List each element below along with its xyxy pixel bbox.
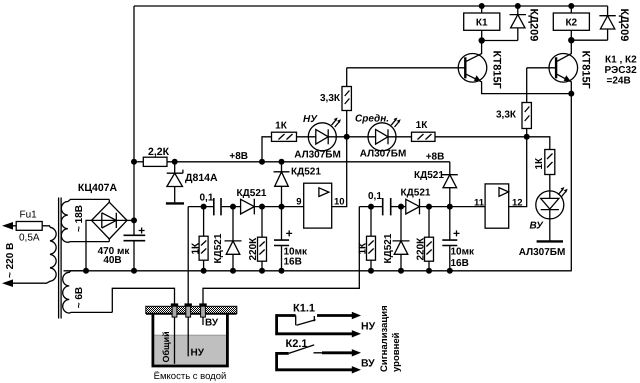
- wire R10 to base of VT2: [527, 67, 549, 69]
- svg-text:К2.1: К2.1: [286, 338, 308, 350]
- ground bar of zener: [166, 202, 184, 204]
- svg-text:АЛ307БМ: АЛ307БМ: [519, 247, 566, 258]
- wire cap to series diode ch2: [392, 206, 406, 208]
- arrow NU bottom: [352, 330, 361, 337]
- tank lid hatched: [146, 306, 237, 313]
- electrode bushing common: [171, 303, 178, 306]
- svg-text:+8В: +8В: [229, 151, 248, 162]
- diode VD7 KD521 shunt ch2: [393, 207, 410, 271]
- LED HL3 light arrows: [558, 190, 566, 197]
- wire ch1 input row left: [188, 206, 213, 208]
- svg-text:ВУ: ВУ: [530, 220, 545, 231]
- svg-text:+8В: +8В: [426, 151, 445, 162]
- resistor R2 1K ch1: [203, 207, 205, 271]
- contact K1.1 fixed lead: [277, 314, 296, 317]
- wire bridge plus output: [127, 219, 134, 221]
- junction dots ch1 input row: [201, 204, 207, 210]
- capacitor C4 10uF 16V ch2: [449, 207, 451, 271]
- svg-text:КД209: КД209: [528, 9, 540, 42]
- relay K2: [553, 13, 589, 30]
- wire LED HL3 to ground bar: [549, 210, 551, 241]
- junction dots +8V rail: [131, 159, 137, 165]
- wire fuse to primary winding: [42, 226, 50, 228]
- wire left feed from bridge + up to top rail: [133, 6, 135, 235]
- svg-text:0,5А: 0,5А: [19, 232, 40, 243]
- junction dots ch2 input row: [368, 204, 374, 210]
- svg-text:ВУ: ВУ: [361, 358, 375, 370]
- wire +8V rail left segment: [134, 161, 143, 163]
- contact K1.1 notch and blade: [296, 316, 316, 326]
- arrow mains input top: [2, 222, 13, 230]
- ground bar of HL3: [537, 240, 563, 242]
- contact K2.1 output lead: [322, 351, 352, 354]
- resistor R3 220K ch1: [261, 207, 263, 271]
- svg-text:К1: К1: [476, 17, 488, 28]
- electrode rod NU: [187, 317, 189, 357]
- diode VD5 KD521 clamp ch1 to +8V: [274, 162, 290, 207]
- wire from 470uF cap to 0V rail: [133, 241, 135, 271]
- bridge inner diode symbol: [92, 213, 128, 228]
- svg-text:220К: 220К: [416, 237, 427, 261]
- wire R5 to node B and down to R8: [435, 137, 550, 150]
- svg-text:1К: 1К: [534, 157, 545, 170]
- arrow NU top: [352, 312, 361, 319]
- svg-text:уровней: уровней: [391, 332, 402, 372]
- junction node B: [524, 134, 530, 140]
- op-amp U1 pins 9,10: [304, 183, 332, 228]
- arrow VU bottom: [352, 366, 361, 373]
- svg-text:9: 9: [296, 197, 301, 208]
- svg-text:КД209: КД209: [618, 9, 630, 42]
- junction dot emitters: [568, 91, 574, 97]
- wire mains top lead through fuse: [11, 225, 42, 227]
- svg-text:КТ815Г: КТ815Г: [491, 51, 503, 90]
- contact K1.1 output lead: [317, 314, 352, 317]
- transistor VT1 KT815G: [458, 54, 487, 83]
- diode VD8 KD521 clamp ch2 to +8V: [442, 162, 458, 207]
- op-amp U2 pins 11,12: [485, 184, 509, 228]
- svg-text:РЭС32: РЭС32: [605, 65, 638, 76]
- svg-text:КЦ407А: КЦ407А: [78, 182, 118, 194]
- tank water fill: [154, 335, 226, 366]
- svg-text:НУ: НУ: [361, 320, 376, 332]
- plus sign of 470uF: [139, 228, 145, 234]
- svg-text:КД521: КД521: [383, 233, 394, 263]
- capacitor C2 10uF 16V ch1: [281, 207, 283, 271]
- svg-text:К1.1: К1.1: [293, 303, 315, 315]
- wire 6V bottom to common electrode: [112, 288, 174, 312]
- wire R4 to LED: [297, 136, 316, 138]
- capacitor C1 0.1 plates: [214, 198, 221, 215]
- arrow mains input bottom: [2, 279, 13, 287]
- svg-text:АЛ307БМ: АЛ307БМ: [294, 150, 341, 161]
- svg-text:2,2К: 2,2К: [148, 146, 170, 158]
- wire probe VU down and to tank: [203, 207, 359, 304]
- svg-text:К2: К2: [565, 17, 577, 28]
- svg-text:0,1: 0,1: [368, 191, 382, 202]
- resistor R9 220K ch2: [428, 207, 430, 271]
- svg-text:10мк: 10мк: [451, 246, 476, 257]
- wire op-amp pin10 output: [332, 137, 347, 207]
- junction node A: [344, 134, 350, 140]
- svg-text:КД521: КД521: [213, 233, 224, 263]
- wire cap to series diode: [222, 206, 241, 208]
- svg-text:1К: 1К: [416, 120, 429, 131]
- wire ch2 input row left: [359, 206, 382, 208]
- relay K1: [464, 13, 500, 30]
- LED HL2 AL307BM (Sredn): [368, 123, 396, 151]
- svg-text:НУ: НУ: [303, 114, 318, 125]
- wire R8 to LED VU: [549, 175, 551, 199]
- junction dot bridge output: [131, 217, 137, 223]
- junction dots 0V rail: [83, 268, 89, 274]
- zener VD2 D814A: [167, 162, 183, 202]
- resistor R7 1K ch2: [370, 207, 372, 271]
- arrow VU top: [352, 349, 361, 356]
- svg-text:=24В: =24В: [607, 76, 631, 87]
- contact K2.1 blade: [289, 345, 322, 354]
- svg-text:К1 , К2: К1 , К2: [605, 54, 637, 65]
- wire LED HL1 to node A and LED HL2: [328, 136, 375, 138]
- electrode rod common: [174, 317, 176, 364]
- svg-text:10: 10: [334, 197, 345, 208]
- wire series diode to op-amp pin 11: [420, 206, 486, 208]
- wire series diode to op-amp pin 9: [254, 206, 303, 208]
- diode VD9 KD209: [482, 6, 526, 41]
- capacitor C 470uF 40V plates: [124, 235, 146, 240]
- svg-text:Д814А: Д814А: [185, 172, 218, 184]
- diode VD6 KD521 series ch2: [406, 199, 420, 215]
- junction dots relay bottoms: [479, 37, 485, 43]
- wire 0V bottom rail: [64, 270, 572, 272]
- electrode bushing VU: [199, 303, 206, 306]
- resistor R4 1K LED NU: [272, 132, 297, 141]
- wire op-amp pin12 output up to node B: [509, 137, 527, 207]
- junction dots top rail: [479, 3, 485, 9]
- svg-text:АЛ307БМ: АЛ307БМ: [360, 148, 407, 159]
- svg-text:Ёмкость с водой: Ёмкость с водой: [154, 371, 227, 382]
- svg-text:1К: 1К: [358, 242, 369, 255]
- electrode rod VU: [202, 317, 204, 326]
- diode VD10 KD209: [571, 6, 616, 40]
- svg-text:Общий: Общий: [161, 331, 171, 362]
- resistor R1 2.2K: [143, 157, 167, 166]
- transistor VT2 KT815G: [549, 54, 578, 83]
- svg-text:3,3К: 3,3К: [320, 93, 341, 104]
- wire R6 to base of VT1: [347, 67, 459, 69]
- svg-text:КД521: КД521: [291, 166, 321, 177]
- wire LED HL2 to R5: [388, 136, 412, 138]
- LED HL1 light arrows: [332, 120, 340, 127]
- svg-text:Сигнализация: Сигнализация: [379, 305, 390, 372]
- svg-text:16В: 16В: [284, 256, 302, 267]
- capacitor C3 0.1 plates ch2: [383, 198, 391, 215]
- svg-text:НУ: НУ: [191, 347, 205, 358]
- bridge rectifier VD1 KC407A diamond: [92, 202, 128, 239]
- svg-text:220К: 220К: [248, 237, 259, 261]
- wire +24V top rail: [134, 5, 608, 7]
- LED HL2 light arrows: [391, 120, 399, 127]
- plus sign of C4: [454, 230, 460, 236]
- resistor R6 3.3K ch1: [346, 68, 348, 137]
- wire NU return lead: [277, 314, 353, 334]
- resistor R8 1K LED VU: [545, 150, 555, 175]
- svg-text:КД521: КД521: [401, 187, 431, 198]
- transformer core: [59, 198, 62, 319]
- transformer 6V secondary winding: [63, 271, 113, 313]
- tank walls: [153, 313, 228, 366]
- transformer 18V secondary winding: [61, 199, 109, 242]
- diode VD3 KD521 series ch1: [241, 199, 255, 215]
- plus sign of C2: [286, 230, 292, 236]
- wire VU return lead: [277, 352, 353, 370]
- svg-text:40В: 40В: [103, 255, 121, 266]
- LED HL1 AL307BM (NU): [308, 123, 336, 151]
- LED HL3 AL307BM (VU): [536, 191, 564, 219]
- svg-text:1К: 1К: [275, 120, 288, 131]
- svg-text:~ 18В: ~ 18В: [74, 205, 85, 232]
- fuse Fu1: [16, 222, 42, 231]
- svg-text:КД521: КД521: [237, 188, 267, 199]
- transformer T1 primary winding: [11, 227, 56, 283]
- diode VD4 KD521 shunt ch1: [225, 207, 242, 271]
- svg-text:Fu1: Fu1: [20, 209, 38, 220]
- svg-text:КТ815Г: КТ815Г: [580, 51, 592, 90]
- svg-text:11: 11: [474, 198, 485, 209]
- svg-text:~ 6В: ~ 6В: [74, 287, 85, 308]
- svg-text:~ 220 В: ~ 220 В: [5, 243, 16, 278]
- svg-text:1К: 1К: [191, 242, 202, 255]
- svg-text:0,1: 0,1: [200, 192, 214, 203]
- wire probe NU down to tank: [187, 207, 189, 304]
- svg-text:КД521: КД521: [414, 170, 444, 181]
- contact K2.1 fixed lead: [277, 352, 289, 355]
- wire 18V top to bridge corner: [108, 199, 110, 203]
- svg-text:ВУ: ВУ: [205, 317, 219, 328]
- wire +8V rail right segment: [167, 161, 450, 163]
- resistor R10 3.3K ch2: [526, 68, 528, 137]
- svg-text:3,3К: 3,3К: [496, 109, 517, 120]
- svg-text:16В: 16В: [451, 258, 469, 269]
- wire 18V bottom to bridge corner: [108, 238, 110, 242]
- svg-text:12: 12: [512, 198, 523, 209]
- electrode bushing NU: [185, 303, 192, 306]
- svg-text:Средн.: Средн.: [355, 114, 389, 125]
- wire +8V rail up to R4: [262, 137, 272, 162]
- resistor R5 1K LED Sredn: [412, 132, 436, 141]
- wire bridge minus output to 0V rail: [86, 220, 92, 270]
